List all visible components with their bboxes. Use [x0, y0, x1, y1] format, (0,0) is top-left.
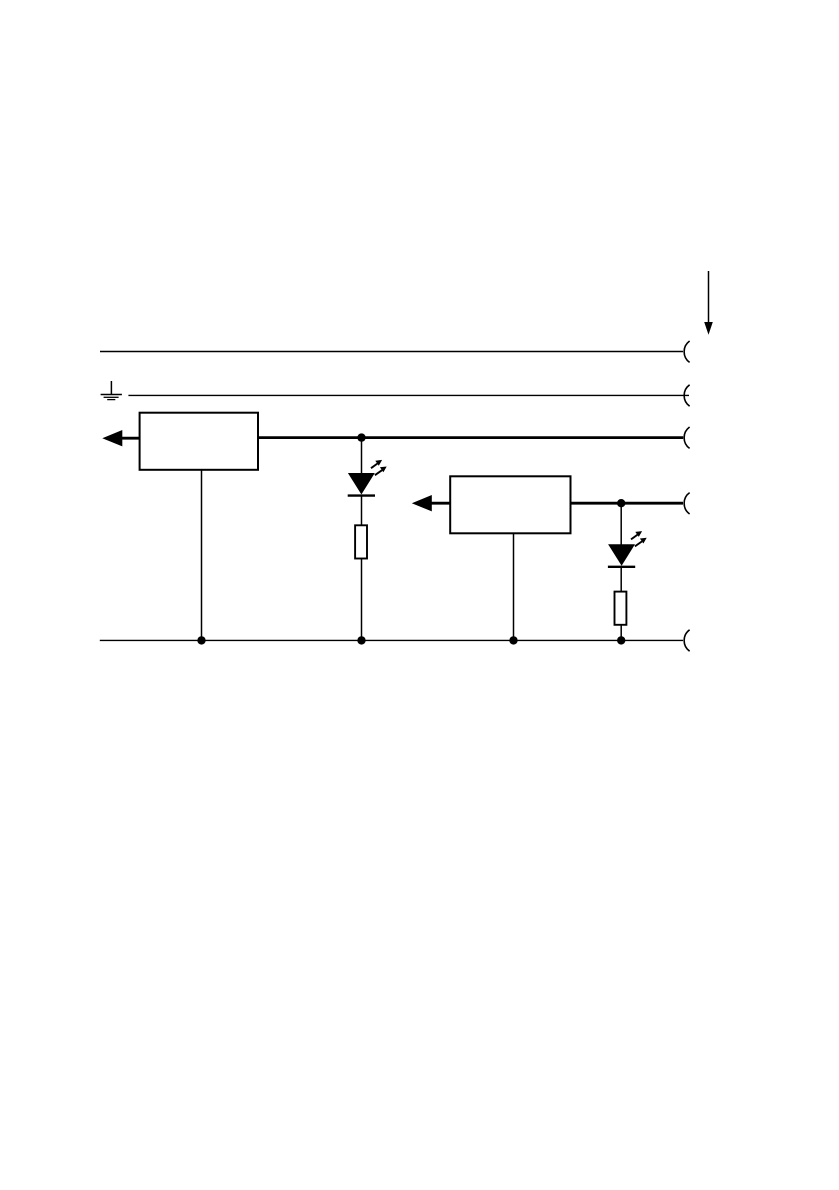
vertical arrow pointer [704, 271, 713, 335]
junction dot [617, 636, 625, 644]
wire R1 to bottom bus [361, 559, 363, 641]
resistor R2 [615, 592, 627, 625]
wire bus line 1 [100, 351, 683, 353]
wire bus line 2 [128, 394, 689, 396]
box U2 [450, 476, 570, 533]
connector pin 3 [684, 427, 689, 448]
junction dot [509, 636, 517, 644]
LED D2 [608, 544, 635, 567]
wire bus line 4 (thick) [571, 502, 684, 505]
connector pin 1 [684, 341, 689, 362]
wire bus line 3 (thick) [258, 436, 683, 439]
box U1 [140, 413, 258, 470]
arrow into box U2 [412, 495, 450, 511]
wire box U1 stem [201, 470, 203, 641]
ground symbol [101, 381, 122, 400]
wire LED1 to R1 [361, 496, 363, 526]
resistor R1 [355, 525, 367, 558]
connector pin 4 [684, 493, 689, 514]
junction dot node A [357, 433, 365, 441]
LED D2 emission arrows [631, 531, 647, 546]
junction dot [197, 636, 205, 644]
LED D1 [348, 473, 375, 496]
wire LED branch 1 top [361, 438, 363, 474]
wire R2 to bottom bus [620, 625, 622, 641]
LED D1 emission arrows [371, 460, 387, 475]
wire LED2 to R2 [620, 567, 622, 592]
connector pin 5 [684, 630, 689, 651]
wire box U2 stem [513, 533, 515, 640]
wire bottom bus [100, 639, 683, 641]
arrow into box U1 [102, 430, 139, 446]
junction dot [357, 636, 365, 644]
wire LED branch 2 top [620, 503, 622, 545]
connector pin 2 [684, 385, 689, 406]
junction dot node B [617, 499, 625, 507]
